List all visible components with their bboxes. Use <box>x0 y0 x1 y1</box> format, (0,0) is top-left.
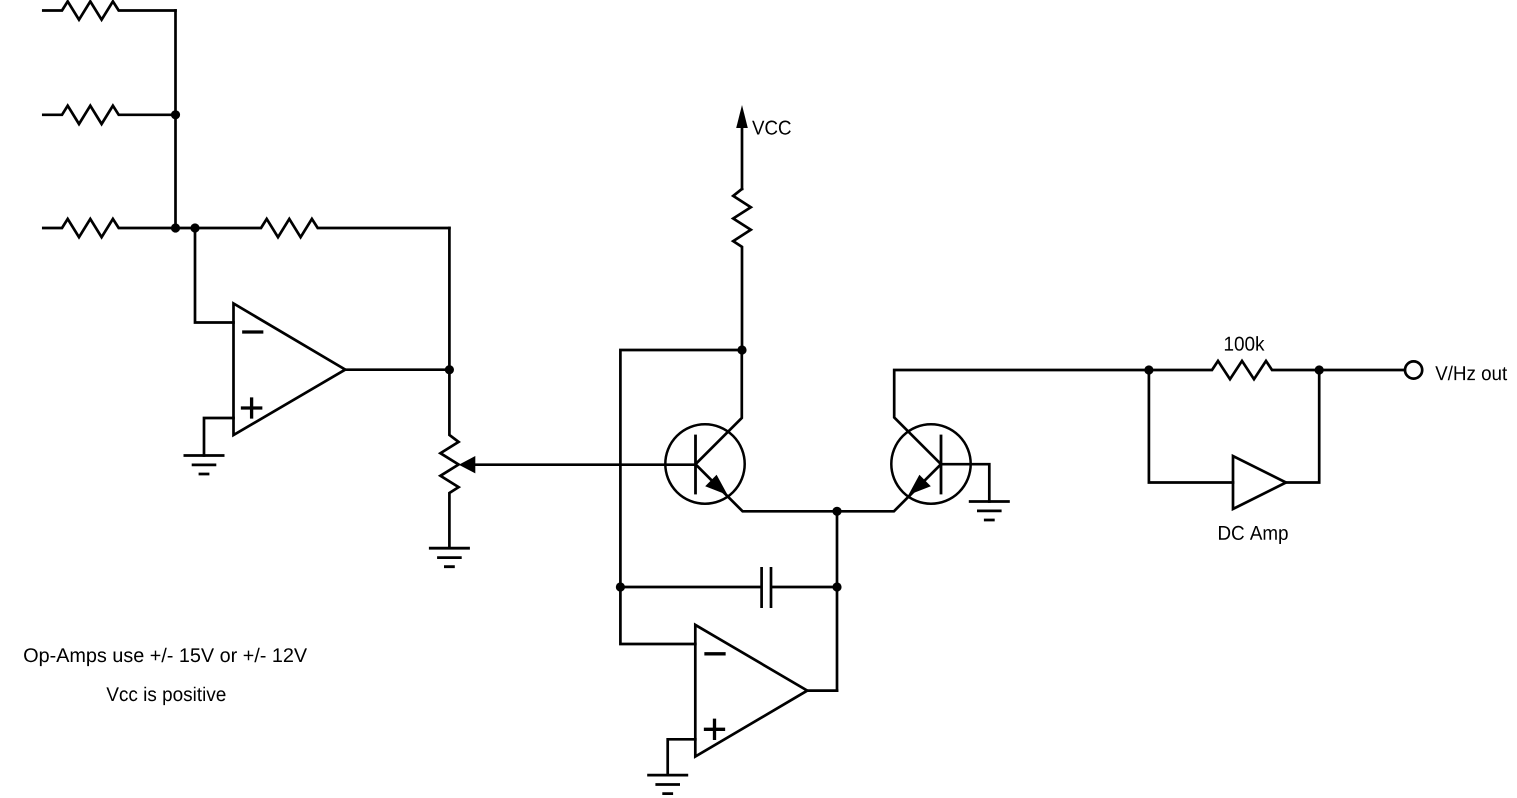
transistor Q2 <box>891 424 970 503</box>
junction DC amp input node <box>1144 365 1153 374</box>
U2 plus label <box>706 720 724 738</box>
note line 1 <box>24 648 307 666</box>
VCC power arrow <box>736 105 748 128</box>
junction DC amp output node <box>1315 365 1324 374</box>
wire VR1 wiper to Q1 base <box>475 463 695 466</box>
Q2 base bar <box>940 436 943 493</box>
resistor R2 (input 2) <box>43 106 175 124</box>
wire U2 non-inverting input <box>668 739 696 775</box>
terminal V/Hz out <box>1405 361 1422 378</box>
resistor R6 100k <box>1149 361 1319 379</box>
wire feedback right drop <box>448 228 451 370</box>
junction input bus / R3 <box>171 223 180 232</box>
junction Q1 collector node <box>737 345 746 354</box>
Q2 base wire <box>941 464 989 501</box>
label V/Hz out <box>1435 366 1507 381</box>
junction capacitor right <box>832 582 841 591</box>
ground VR1 <box>430 548 468 567</box>
capacitor C1 <box>620 568 837 606</box>
wire to output terminal <box>1319 369 1404 372</box>
ground U1 <box>185 456 223 475</box>
note line 2 <box>106 687 225 705</box>
Q1 emitter <box>696 464 838 511</box>
wire input summing bus <box>174 11 177 229</box>
op-amp U1 <box>234 304 346 436</box>
resistor R1 (input 1) <box>43 1 175 19</box>
ground U2 <box>649 775 687 794</box>
resistor R3 (input 3) <box>43 219 195 237</box>
node summing junction <box>190 223 199 232</box>
Q1 base bar <box>694 436 697 493</box>
wire emitters to U2 output <box>836 511 839 690</box>
label 100k <box>1225 336 1265 351</box>
op-amp U2 <box>695 625 807 757</box>
wire U1 output <box>345 368 449 371</box>
Q2 emitter arrow <box>908 475 930 495</box>
Q2 collector <box>894 370 1149 464</box>
label VCC <box>752 121 791 135</box>
amplifier DC Amp <box>1233 456 1286 509</box>
Q2 emitter <box>837 464 941 511</box>
potentiometer VR1 <box>440 370 458 549</box>
VR1 wiper arrow <box>459 456 476 473</box>
U1 plus label <box>243 399 261 417</box>
wire U1 non-inverting input <box>204 418 234 456</box>
U1 minus label <box>244 330 262 333</box>
wire U2 output <box>807 689 837 692</box>
transistor Q1 <box>665 424 744 503</box>
U2 minus label <box>706 652 724 655</box>
wire DC amp input branch <box>1149 370 1233 483</box>
node VCC lead <box>741 128 744 189</box>
label DC Amp <box>1219 526 1288 544</box>
wire DC amp output branch <box>1286 370 1319 483</box>
Q1 collector <box>696 350 742 464</box>
wire U2 inverting input <box>620 587 695 644</box>
resistor R5 (VCC pull-up) <box>733 189 751 350</box>
Q1 emitter arrow <box>705 475 727 495</box>
junction capacitor left <box>616 582 625 591</box>
ground Q2 <box>970 502 1008 521</box>
wire collector node to cap branch <box>620 350 742 587</box>
wire U1 inverting input <box>195 228 234 323</box>
junction input bus / R2 <box>171 110 180 119</box>
junction U1 output <box>445 365 454 374</box>
resistor R4 (feedback) <box>195 219 449 237</box>
junction emitters node <box>832 507 841 516</box>
